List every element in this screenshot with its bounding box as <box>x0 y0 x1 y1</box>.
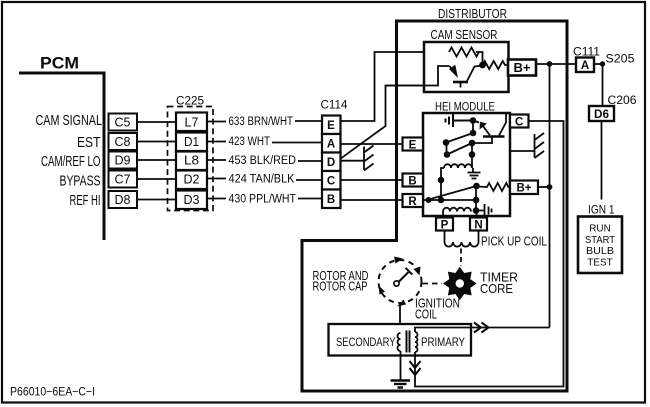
rotor arm <box>398 272 410 284</box>
wire secondary bottom to ground <box>400 351 402 380</box>
wire D6 down to IGN 1 <box>601 121 603 200</box>
HEI module pin E <box>403 138 424 151</box>
wire primary bottom <box>414 352 416 357</box>
wire pin N down <box>478 231 480 243</box>
junction dot module B+ <box>547 184 553 190</box>
timer core hub <box>454 278 465 289</box>
svg-text:CAM SIGNAL: CAM SIGNAL <box>36 112 103 129</box>
arrow right on primary feed <box>474 323 481 333</box>
wire C111 to S205 <box>594 63 603 65</box>
inductor L2 (module) <box>443 208 471 212</box>
ground at C114-D (distributor ground) <box>364 146 374 171</box>
ignition coil box <box>329 324 472 356</box>
svg-text:E: E <box>327 120 335 132</box>
wire primary top to B+ feed <box>415 328 550 333</box>
node I (R row) <box>438 197 445 204</box>
phototransistor Q1 arrow <box>450 66 454 71</box>
svg-text:423 WHT: 423 WHT <box>229 136 271 148</box>
pick up coil winding <box>445 242 479 247</box>
svg-text:633 BRN/WHT: 633 BRN/WHT <box>229 116 294 128</box>
CAM SENSOR box <box>424 42 509 92</box>
transistor Q2 arrow <box>473 121 479 123</box>
PCM pin C8 <box>109 133 138 150</box>
svg-text:L7: L7 <box>185 116 199 130</box>
svg-text:D9: D9 <box>115 154 131 168</box>
node J <box>473 197 480 204</box>
svg-text:424 TAN/BLK: 424 TAN/BLK <box>229 174 295 186</box>
PCM pin C5 <box>109 114 138 131</box>
wire D8 to D3 <box>137 199 176 201</box>
node A (module) <box>470 117 477 124</box>
svg-text:S205: S205 <box>606 52 635 66</box>
svg-text:C: C <box>515 117 523 129</box>
svg-text:D8: D8 <box>115 193 131 207</box>
node F (module) <box>469 151 476 158</box>
svg-text:A: A <box>327 139 335 151</box>
wire C114-E up to cam sensor (633) <box>341 52 447 121</box>
inductor L1 (module) <box>444 164 472 168</box>
connector C225 dashed outline <box>168 107 214 211</box>
wire L1 left side down to R row <box>441 168 444 200</box>
switch arm 3 (pivot to node K) <box>429 186 477 200</box>
wire 423 WHT right stub to C114-A <box>272 142 322 144</box>
module internal ground top-left <box>446 114 474 127</box>
wire 453 BLK/RED right stub to C114-D <box>298 160 322 162</box>
svg-text:ROTOR CAP: ROTOR CAP <box>313 280 368 294</box>
wire C5 to L7 <box>137 121 176 123</box>
splice S205 <box>600 61 605 66</box>
svg-text:START: START <box>585 234 616 246</box>
wire node D down to coil ground <box>471 143 473 168</box>
svg-text:IGN 1: IGN 1 <box>588 203 615 217</box>
wire 633 BRN/WHT right stub to C114-E <box>295 120 322 122</box>
ground right of node L <box>476 204 492 217</box>
transformer core <box>406 331 408 353</box>
svg-text:D1: D1 <box>184 135 199 149</box>
resistor R1 in cam sensor <box>449 48 479 57</box>
node P1 switch pivot <box>426 197 432 203</box>
wire C8 to D1 <box>137 141 176 143</box>
node E2 (module) <box>444 151 451 158</box>
node C (module E row) <box>443 139 450 146</box>
B+ feed vertical wire <box>549 64 551 328</box>
node H (B row) <box>438 177 445 184</box>
C225 pin L7 <box>176 113 207 132</box>
wire 423 WHT left stub <box>207 141 226 143</box>
svg-text:453 BLK/RED: 453 BLK/RED <box>229 155 297 167</box>
earth ground below ignition coil <box>391 381 411 388</box>
C225 pin D2 <box>176 171 207 190</box>
svg-text:C114: C114 <box>321 98 348 112</box>
svg-text:R: R <box>408 196 417 208</box>
C225 pin D3 <box>176 191 207 210</box>
junction dot B+ feed <box>547 61 553 67</box>
wire 430 PPL/WHT right stub to C114-B <box>298 198 322 200</box>
connector C206 pin D6 <box>589 106 614 121</box>
svg-text:DISTRIBUTOR: DISTRIBUTOR <box>438 6 507 21</box>
HEI module pin R <box>403 194 424 207</box>
svg-text:EST: EST <box>77 134 101 151</box>
svg-text:A: A <box>581 60 589 72</box>
svg-text:D3: D3 <box>184 193 200 207</box>
transistor Q2 collector <box>499 114 506 136</box>
C225 pin L8 <box>176 152 207 171</box>
wire 424 TAN/BLK right stub to C114-C <box>296 179 322 181</box>
HEI module pin B+ <box>510 181 538 195</box>
svg-text:C7: C7 <box>115 173 131 187</box>
C225 pin D1 <box>176 133 207 152</box>
IGN 1 fuse box RUN START BULB TEST <box>578 217 622 274</box>
svg-text:CORE: CORE <box>480 282 513 296</box>
ground right of HEI module <box>510 133 544 158</box>
svg-text:COIL: COIL <box>415 308 437 322</box>
svg-text:P: P <box>441 220 449 232</box>
wire rotor to secondary winding <box>399 303 401 333</box>
connector C114 pin D <box>322 153 341 172</box>
rotor rotation arrows <box>394 257 403 264</box>
svg-text:BULB: BULB <box>586 245 614 257</box>
svg-text:CAM/REF LO: CAM/REF LO <box>41 153 101 170</box>
transistor Q2 base bar <box>483 135 505 138</box>
svg-text:D6: D6 <box>594 107 609 121</box>
svg-text:CAM SENSOR: CAM SENSOR <box>431 28 498 42</box>
wire node L down to pin N <box>476 211 478 218</box>
wire cam B+ to C111 <box>536 63 576 65</box>
connector C114 pin A <box>322 134 341 153</box>
svg-text:B: B <box>327 194 335 206</box>
wire S205 down to C206 <box>602 64 604 106</box>
transformer primary winding <box>415 332 418 352</box>
phototransistor Q1 collector lead <box>386 66 450 86</box>
svg-text:N: N <box>474 220 482 232</box>
wire C7 to D2 <box>137 178 176 180</box>
PCM pin C7 <box>109 171 138 188</box>
wire C114-D stub to ground <box>341 160 365 162</box>
svg-text:B: B <box>408 176 416 188</box>
arrow down to primary <box>410 361 421 368</box>
node B (module) <box>470 130 477 137</box>
wire pin P down <box>444 231 446 243</box>
wire node A to node B <box>472 121 474 134</box>
wire module B+ to feed <box>538 186 550 188</box>
wire L2 left to pin P <box>442 212 444 218</box>
svg-text:C: C <box>327 176 335 188</box>
wire C114-B to HEI module R (430) <box>341 199 403 201</box>
wire 430 PPL/WHT left stub <box>207 198 226 200</box>
node D (module) <box>469 140 476 147</box>
wire C114-A to HEI module E (423) <box>341 143 403 145</box>
transistor Q2 emitter lead to node D <box>472 138 492 144</box>
svg-text:BYPASS: BYPASS <box>60 173 101 190</box>
resistor R3 to B+ <box>477 183 511 191</box>
svg-text:B+: B+ <box>514 60 531 75</box>
dashed link pickup coil to timer core <box>460 249 462 267</box>
svg-text:HEI MODULE: HEI MODULE <box>435 100 495 114</box>
wire D9 to L8 <box>137 159 176 161</box>
switch arm 2 (E2 to node D) <box>447 143 472 155</box>
phototransistor Q1 base bar <box>453 81 468 84</box>
svg-text:PICK UP COIL: PICK UP COIL <box>481 235 547 249</box>
wire 424 TAN/BLK left stub <box>207 178 226 180</box>
transformer secondary winding <box>398 333 401 351</box>
svg-text:C8: C8 <box>115 135 131 149</box>
switch arm 1 (E to node B) <box>446 133 473 143</box>
node K <box>473 183 480 190</box>
wire resistor R1 to node <box>476 52 483 65</box>
svg-text:B+: B+ <box>517 181 532 195</box>
HEI module pin N <box>470 218 487 231</box>
node dot cam sensor <box>479 62 486 69</box>
PCM module outline <box>19 73 104 240</box>
connector C114 pin B <box>322 190 341 209</box>
svg-text:D: D <box>327 157 335 169</box>
svg-text:C225: C225 <box>176 94 204 108</box>
resistor R2 in cam sensor <box>483 61 509 69</box>
svg-text:TEST: TEST <box>587 256 613 268</box>
connector C114 pin E <box>322 116 341 135</box>
timer core star <box>443 267 477 301</box>
svg-text:PCM: PCM <box>40 54 79 73</box>
wire node K down to node J and L <box>475 186 477 211</box>
svg-text:PRIMARY: PRIMARY <box>421 337 465 349</box>
dashed link rotor to timer core <box>423 283 443 285</box>
wire R row inside module <box>423 199 476 201</box>
HEI module pin C output <box>510 115 529 128</box>
DISTRIBUTOR outline <box>302 21 567 391</box>
svg-text:C5: C5 <box>115 116 131 130</box>
connector C114 pin C <box>322 171 341 190</box>
svg-text:REF HI: REF HI <box>70 192 101 209</box>
HEI module pin B <box>403 174 424 187</box>
HEI MODULE box <box>423 113 510 216</box>
wire 453 BLK/RED left stub <box>207 159 226 161</box>
svg-text:SECONDARY: SECONDARY <box>336 337 396 349</box>
node L <box>473 207 480 214</box>
wire node C down <box>446 143 448 155</box>
wire C output to coil primary (down right side) <box>415 121 564 387</box>
svg-text:L8: L8 <box>184 154 199 168</box>
phototransistor Q1 collector diagonal to node <box>467 66 483 83</box>
wire C114-D diagonal up to cam sensor low side (453) <box>341 86 439 159</box>
B+ terminal of cam sensor <box>508 60 536 76</box>
PCM pin D9 <box>109 152 138 169</box>
rotor dashed circle <box>379 260 422 303</box>
HEI module pin P <box>436 218 453 231</box>
svg-text:430 PPL/WHT: 430 PPL/WHT <box>229 194 297 206</box>
phototransistor Q1 emitter tick <box>460 83 462 88</box>
svg-text:RUN: RUN <box>589 223 611 235</box>
svg-text:E: E <box>409 140 417 152</box>
svg-text:P66010−6EA−C−I: P66010−6EA−C−I <box>10 387 95 399</box>
ground under L1 <box>468 168 481 179</box>
wire 633 BRN/WHT left stub <box>207 121 226 123</box>
svg-text:D2: D2 <box>184 173 200 187</box>
wire C114-C to HEI module B (424) <box>341 179 403 181</box>
connector C111 pin A <box>576 58 594 73</box>
PCM pin D8 <box>109 191 138 208</box>
